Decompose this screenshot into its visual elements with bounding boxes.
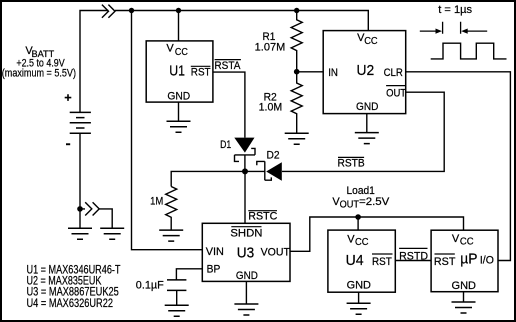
supervisor U4 box	[328, 230, 395, 292]
diode D2	[266, 162, 282, 181]
battery minus label	[66, 143, 70, 145]
svg-text:=2.5V: =2.5V	[359, 196, 390, 208]
resistor R3 1M	[166, 187, 177, 231]
wire U1 GND to ground	[178, 102, 180, 121]
ground (C1)	[165, 305, 189, 316]
node dot R1-R2-IN	[294, 69, 300, 75]
svg-text:t = 1µs: t = 1µs	[438, 4, 472, 16]
wire node to U2 IN	[297, 71, 324, 73]
svg-text:CC: CC	[175, 47, 188, 58]
svg-text:U4 = MAX6326UR22: U4 = MAX6326UR22	[27, 296, 114, 310]
svg-text:D1: D1	[220, 139, 231, 151]
svg-text:Load1: Load1	[347, 185, 375, 197]
node dot rail-U1	[176, 8, 181, 13]
svg-text:0.1µF: 0.1µF	[136, 280, 164, 292]
wire RSTA : U1 RST to D1	[213, 72, 245, 138]
connector J1 chevrons (return)	[85, 202, 99, 215]
svg-text:V: V	[166, 43, 174, 55]
svg-text:RSTA: RSTA	[214, 60, 241, 72]
svg-text:RSTD: RSTD	[399, 250, 428, 262]
regulator U3 box	[202, 223, 290, 281]
svg-text:RST: RST	[372, 256, 392, 268]
svg-text:U1: U1	[169, 63, 185, 80]
node dot D1-D2-1M-SHDN	[242, 168, 248, 174]
wire VOUT rail	[290, 217, 464, 251]
ground (connector return)	[100, 228, 124, 239]
node dot battery-connector	[77, 206, 83, 212]
svg-text:RST: RST	[191, 66, 211, 78]
ground (U4)	[347, 303, 371, 314]
wire battery negative to ground	[79, 133, 81, 228]
svg-text:D2: D2	[267, 149, 280, 161]
wire rail to U3 VIN	[132, 11, 203, 250]
wire RSTD : U4 RST to uP RST	[395, 260, 431, 262]
resistor R1	[291, 11, 302, 72]
wire U3 GND to ground	[245, 281, 247, 304]
ground (U3)	[234, 304, 258, 315]
wire U4 GND to ground	[358, 292, 360, 303]
wire RSTB : U2 OUT to D2 anode	[282, 92, 444, 171]
ground (R2)	[285, 133, 309, 144]
timing arrow right	[466, 30, 487, 32]
svg-text:VOUT: VOUT	[261, 247, 291, 259]
svg-text:RST: RST	[434, 256, 456, 268]
ground (U2)	[355, 133, 379, 144]
svg-text:GND: GND	[167, 90, 190, 102]
wire RSTC : node to U3 SHDN	[244, 171, 246, 223]
op-amp U2 box	[323, 31, 406, 114]
diode D2 schottky cathode	[257, 161, 272, 180]
battery B1	[70, 112, 91, 133]
svg-text:RSTB: RSTB	[338, 158, 365, 170]
overline RSTB	[338, 156, 364, 158]
svg-text:OUT: OUT	[386, 87, 406, 99]
svg-text:IN: IN	[328, 67, 338, 79]
wire VBATT top rail	[80, 11, 368, 113]
wire node to 1M resistor	[171, 171, 245, 186]
svg-text:VIN: VIN	[206, 246, 224, 258]
diode D1 schottky cathode	[235, 148, 256, 161]
wire U3 BP to capacitor	[176, 269, 202, 280]
svg-text:GND: GND	[452, 280, 477, 292]
svg-text:1M: 1M	[150, 195, 163, 207]
node dot rail-R1	[294, 8, 299, 13]
wire node to D2 cathode	[245, 170, 265, 172]
svg-text:CLR: CLR	[384, 67, 403, 79]
overline RSTD	[399, 247, 427, 249]
connector J1 chevrons (top)	[102, 5, 115, 18]
svg-text:U4: U4	[346, 252, 364, 269]
svg-text:1.0M: 1.0M	[259, 102, 283, 114]
overline U2 OUT	[386, 85, 406, 87]
svg-text:µP: µP	[460, 251, 477, 268]
wire rail to U1 VCC	[178, 11, 180, 41]
overline U3 SHDN	[231, 226, 261, 228]
svg-text:CC: CC	[355, 237, 369, 248]
resistor R2	[291, 71, 302, 133]
svg-text:1.07M: 1.07M	[255, 42, 286, 54]
wire U2 CLR to uP I/O	[406, 72, 511, 261]
svg-text:I/O: I/O	[480, 255, 494, 267]
op-amp U1 box	[146, 41, 213, 102]
svg-text:CC: CC	[364, 36, 377, 47]
ground (1M)	[159, 230, 183, 241]
svg-text:U3: U3	[237, 245, 254, 262]
timing tick marks	[443, 22, 461, 34]
timing square wave	[431, 43, 507, 59]
svg-text:GND: GND	[236, 270, 258, 282]
overline U1 RST	[191, 65, 211, 67]
ground (U1)	[167, 121, 191, 132]
svg-text:U2: U2	[357, 62, 375, 79]
wire VOUT node to U4 VCC	[357, 217, 359, 230]
svg-text:GND: GND	[347, 280, 371, 292]
diode D1	[234, 138, 254, 153]
wire uP GND to ground	[463, 292, 465, 302]
svg-text:RSTC: RSTC	[248, 211, 277, 223]
svg-text:GND: GND	[356, 101, 378, 113]
svg-text:SHDN: SHDN	[230, 228, 262, 240]
wire U2 GND to ground	[366, 114, 368, 133]
overline RSTA	[215, 59, 241, 61]
ground (battery)	[68, 228, 92, 239]
battery plus label	[65, 94, 72, 101]
microprocessor uP box	[431, 230, 498, 292]
ground (uP)	[452, 302, 476, 313]
overline U4 RST	[372, 253, 393, 255]
svg-text:V: V	[452, 233, 460, 245]
svg-text:(maximum = 5.5V): (maximum = 5.5V)	[2, 67, 76, 79]
overline uP RST	[435, 253, 455, 255]
wire capacitor to ground	[176, 290, 178, 305]
node dot VOUT-U4	[355, 214, 361, 220]
svg-text:CC: CC	[460, 237, 474, 248]
svg-text:BP: BP	[207, 263, 221, 275]
capacitor C1 0.1uF	[167, 280, 186, 291]
node dot rail-VIN	[129, 8, 134, 13]
svg-text:OUT: OUT	[340, 200, 359, 211]
wire D1 cathode to node	[244, 155, 246, 172]
overline RSTC	[248, 210, 277, 212]
wire connector return to ground	[80, 209, 112, 228]
timing arrow left	[420, 30, 437, 32]
